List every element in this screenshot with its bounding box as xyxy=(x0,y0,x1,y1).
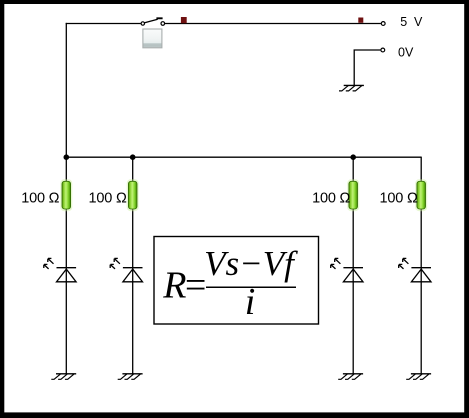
svg-text:R=: R= xyxy=(162,264,204,306)
wire: top rail left segment (node to switch) xyxy=(66,23,141,25)
current marker (red) near switch xyxy=(181,17,187,23)
svg-text:100 Ω: 100 Ω xyxy=(21,191,59,207)
resistor R1 xyxy=(60,179,72,211)
node C (junction bus/branch3) xyxy=(350,154,356,160)
terminal: 0V xyxy=(381,48,385,52)
svg-text:Vs−Vf: Vs−Vf xyxy=(204,244,298,283)
wire: branch 3 vertical xyxy=(352,157,354,374)
wire: top rail right segment (switch to 5V terminal) xyxy=(165,23,381,25)
switch SW1 push button cap xyxy=(143,29,162,48)
wire: branch 1 vertical xyxy=(65,157,67,374)
node B (junction bus/branch2) xyxy=(130,154,136,160)
wire: branch 4 vertical xyxy=(420,157,422,374)
svg-text:i: i xyxy=(245,281,256,323)
current marker (red) near 5V terminal xyxy=(358,18,363,23)
formula fraction bar xyxy=(206,286,296,288)
resistor R4 xyxy=(415,179,427,211)
svg-text:100 Ω: 100 Ω xyxy=(312,191,350,207)
resistor R2 xyxy=(127,179,139,211)
svg-text:100 Ω: 100 Ω xyxy=(380,191,418,207)
switch SW1 (push switch, open) xyxy=(141,18,165,25)
ground (branch 2) xyxy=(118,374,143,380)
svg-text:0V: 0V xyxy=(398,45,414,59)
wire: 0V terminal to ground xyxy=(354,50,380,85)
terminal: +5V xyxy=(381,22,385,26)
LED D3 xyxy=(331,258,363,281)
border frame xyxy=(0,0,469,4)
ground (branch 1) xyxy=(51,374,76,380)
ground (branch 4) xyxy=(406,374,431,380)
LED D1 xyxy=(44,258,76,281)
wire: left vertical drop from top rail to bus xyxy=(65,23,67,157)
svg-text:5 V: 5 V xyxy=(400,15,424,29)
node A (junction bus/branch1) xyxy=(64,154,70,160)
ground (0V terminal) xyxy=(339,85,364,91)
LED D2 xyxy=(110,258,142,281)
wire: horizontal bus xyxy=(66,156,421,158)
LED D4 xyxy=(399,258,431,281)
svg-text:100 Ω: 100 Ω xyxy=(89,191,127,207)
ground (branch 3) xyxy=(338,374,363,380)
wire: branch 2 vertical xyxy=(132,157,134,374)
formula box xyxy=(154,237,319,325)
resistor R3 xyxy=(347,179,359,211)
